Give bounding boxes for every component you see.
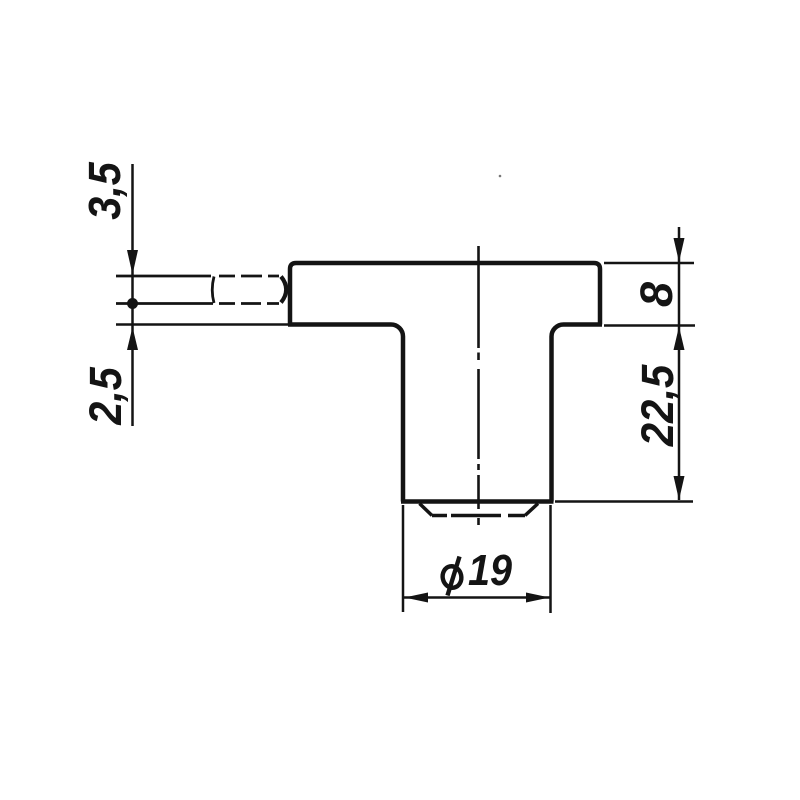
svg-text:2,5: 2,5 [81,366,131,425]
svg-text:3,5: 3,5 [80,161,130,219]
svg-text:19: 19 [468,545,513,594]
svg-text:8: 8 [631,282,682,307]
svg-text:22,5: 22,5 [634,364,684,447]
